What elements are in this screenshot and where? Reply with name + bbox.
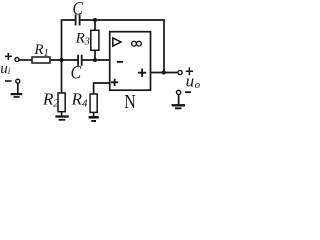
resistor R3 bbox=[91, 30, 99, 50]
svg-text:C: C bbox=[71, 62, 82, 82]
wire R3 top stub bbox=[94, 20, 96, 30]
op-amp infinity gain symbol bbox=[132, 41, 137, 46]
wire op-amp output to terminal bbox=[151, 72, 178, 74]
resistor R1 bbox=[32, 57, 50, 63]
input + terminal bbox=[15, 58, 19, 62]
wire R1 to node A to capacitor C bbox=[50, 59, 78, 61]
wire R3 bottom stub bbox=[94, 50, 96, 60]
output + terminal bbox=[178, 70, 182, 74]
op-amp N box bbox=[110, 32, 151, 90]
wire node A down to R2 bbox=[61, 60, 63, 93]
svg-text:C: C bbox=[73, 0, 84, 19]
wire input to R1 bbox=[19, 59, 32, 61]
ground under R4 bbox=[89, 116, 99, 119]
resistor R4 bbox=[90, 94, 97, 112]
output - terminal bbox=[176, 90, 180, 94]
input + polarity sign bbox=[5, 53, 12, 60]
node A junction bbox=[59, 58, 63, 62]
ground at output bbox=[172, 104, 185, 106]
svg-text:N: N bbox=[124, 90, 136, 112]
output - polarity sign bbox=[185, 91, 191, 93]
capacitor C (feedback) plates bbox=[76, 14, 80, 25]
capacitor C (series input) plates bbox=[78, 55, 82, 66]
resistor R2 bbox=[58, 93, 65, 112]
input - polarity sign bbox=[5, 80, 12, 82]
wire feedback capacitor to right side bbox=[80, 20, 164, 73]
ground at input bbox=[11, 93, 23, 95]
ground under R2 bbox=[55, 115, 68, 117]
wire output terminal to ground bbox=[178, 95, 180, 104]
wire R4 to ground bbox=[93, 112, 95, 116]
op-amp non-inverting input marker bbox=[111, 79, 118, 86]
op-amp output polarity marker bbox=[138, 69, 146, 77]
node B junction bbox=[93, 58, 97, 62]
node T junction (top of R3) bbox=[93, 18, 97, 22]
wire R2 to ground bbox=[61, 112, 63, 116]
output node junction bbox=[162, 70, 166, 74]
wire input terminal to ground bbox=[17, 84, 19, 94]
wire capacitor C to op-amp inverting input bbox=[82, 59, 110, 61]
output + polarity sign bbox=[186, 67, 193, 75]
input - terminal bbox=[16, 79, 20, 83]
op-amp inverting input marker bbox=[117, 61, 123, 63]
op-amp triangle symbol bbox=[113, 38, 121, 46]
wire node A up to feedback capacitor bbox=[62, 20, 75, 60]
wire non-inverting input to R4 bbox=[94, 83, 110, 94]
